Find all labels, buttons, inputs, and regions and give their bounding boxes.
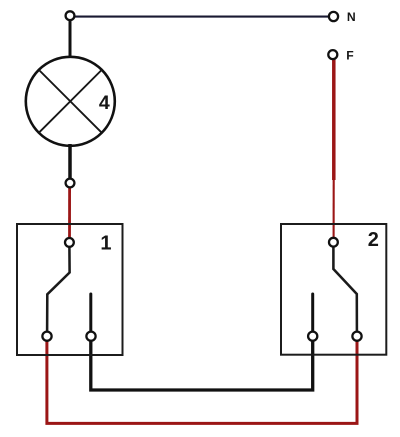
terminal switch 2 left: [308, 332, 317, 341]
lamp L4: [26, 57, 115, 146]
switch 1 lever: [47, 246, 70, 332]
terminal switch 2 common: [329, 238, 338, 247]
switch 2 lever: [333, 246, 357, 332]
wire red traveler (bottom): [47, 338, 357, 423]
wire red F to switch 2 (lower thin): [333, 180, 335, 241]
terminal switch 1 left: [42, 332, 51, 341]
switch 1 fixed contact stub: [89, 294, 92, 332]
wire red lamp to switch 1: [68, 184, 71, 241]
svg-text:F: F: [346, 48, 353, 62]
wire lamp top feed: [69, 18, 72, 59]
terminal switch 2 right: [352, 332, 361, 341]
wire black traveler (bottom): [91, 338, 313, 390]
terminal switch 1 common: [65, 238, 74, 247]
terminal switch 1 right: [86, 332, 95, 341]
switch box 2: [281, 224, 386, 355]
terminal F: [328, 50, 337, 59]
terminal lamp top: [66, 11, 75, 20]
wire N (neutral, top horizontal): [73, 16, 330, 18]
svg-text:1: 1: [100, 232, 111, 254]
switch 2 fixed contact stub: [311, 294, 314, 332]
svg-text:2: 2: [368, 229, 379, 251]
wire red F to switch 2 (upper thick): [332, 56, 336, 180]
wire lamp bottom: [68, 144, 72, 181]
switch box 1: [17, 224, 123, 355]
terminal lamp bottom: [66, 179, 75, 188]
terminal N: [329, 12, 338, 21]
svg-text:4: 4: [99, 92, 110, 114]
svg-text:N: N: [347, 10, 356, 24]
